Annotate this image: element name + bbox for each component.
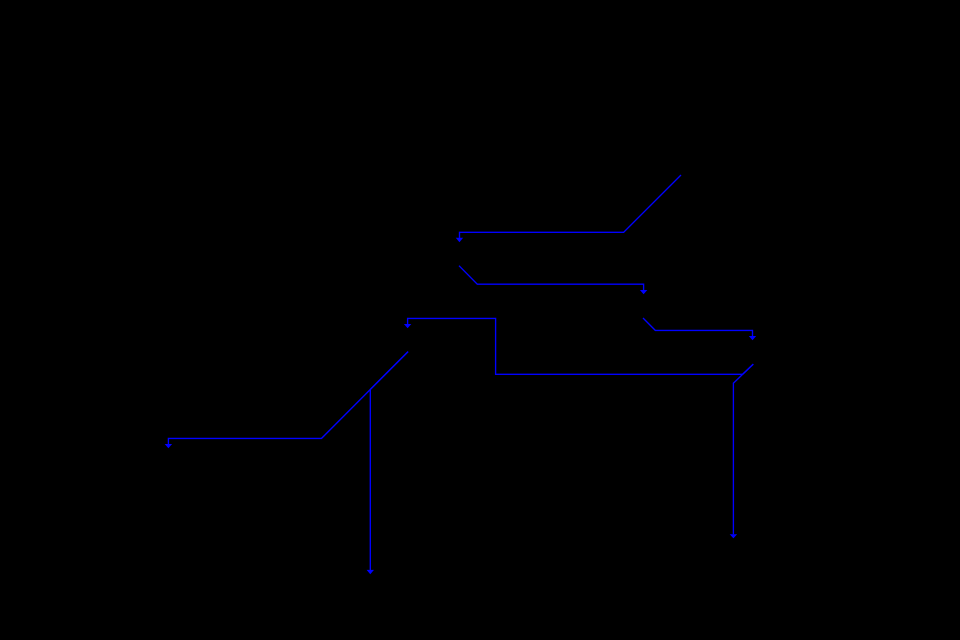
arrowhead E7 into bottom-middle sink node: [367, 570, 374, 574]
arrowhead E4 into node D: [404, 324, 411, 328]
arrowhead E2 into node B: [640, 290, 647, 294]
arrowhead E5 into left sink node: [165, 444, 172, 448]
wire E6 (edge node C to bottom-right sink node): [733, 364, 753, 534]
wire E7 (edge node D to bottom-middle sink node): [370, 352, 408, 570]
wire E4 (edge node C to node D): [408, 318, 754, 374]
wire E1 (edge from start node to node A): [460, 175, 682, 238]
arrowhead E6 into bottom-right sink node: [730, 534, 737, 538]
wire E5 (edge node D to left sink node): [168, 352, 408, 445]
arrowhead E1 into node A: [456, 238, 463, 243]
arrowhead E3 into node C: [749, 336, 756, 340]
wire E2 (edge node A to node B): [459, 266, 644, 290]
wire E3 (edge node B to node C): [643, 318, 753, 336]
